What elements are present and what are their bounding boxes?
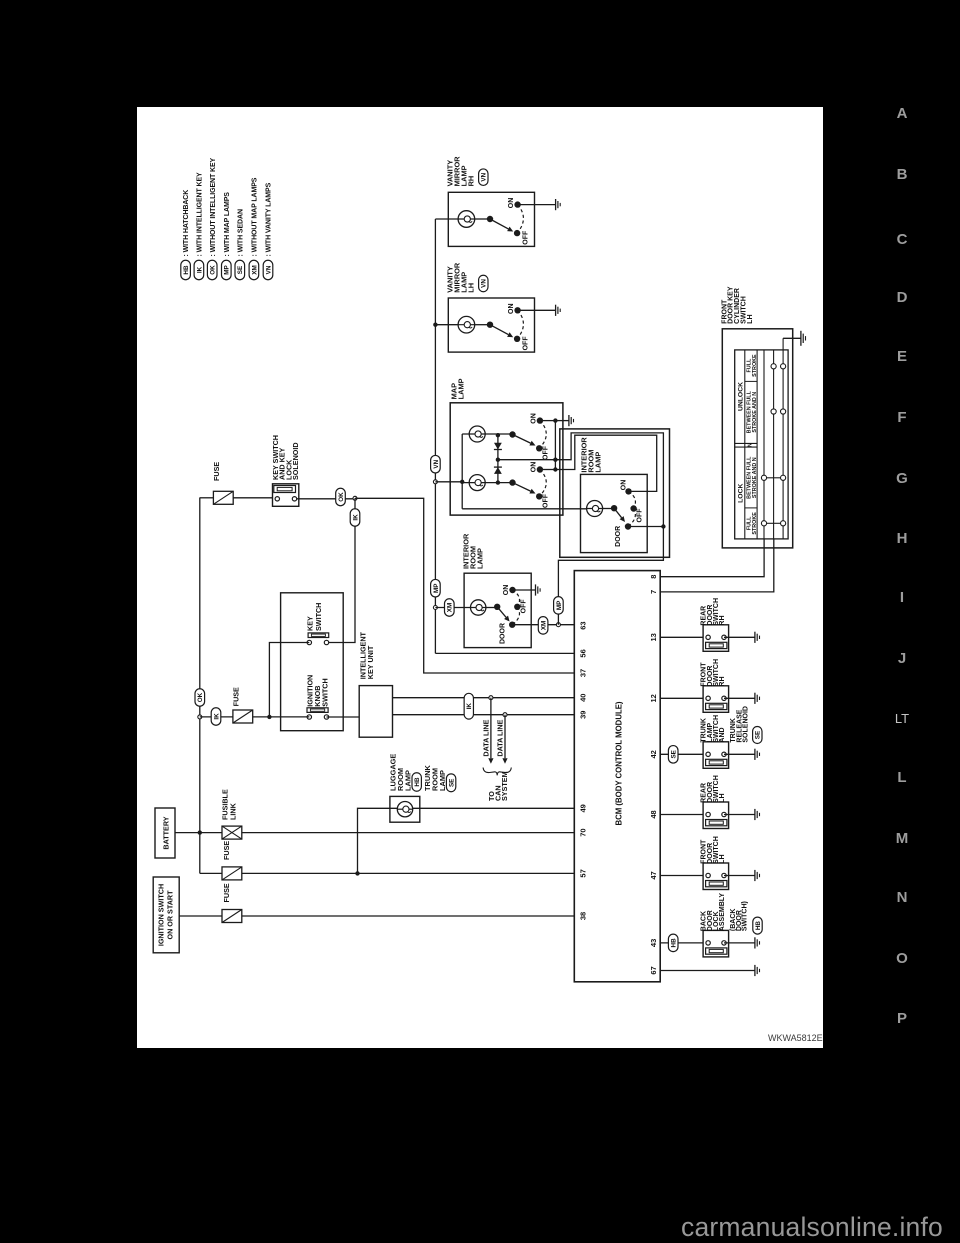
- wire ON1 to rail: [540, 420, 556, 422]
- contact OFF sedan: [630, 505, 636, 511]
- vanity RH bulb: [458, 211, 475, 228]
- legend pill OK: [207, 260, 217, 280]
- pill XM interior lamp: [445, 599, 455, 617]
- contact DOOR sedan: [625, 523, 631, 529]
- wire switch 410.7 to ground: [724, 636, 755, 638]
- map lamp bulb 1: [469, 426, 485, 442]
- ground switch 349.7: [754, 693, 756, 704]
- wire BCM to switch REAR RH: [660, 636, 703, 638]
- switch arrow sedan: [614, 508, 621, 517]
- solenoid terminal 1: [275, 497, 279, 501]
- switch box 172.5: [703, 863, 729, 890]
- pill IK knob branch: [211, 708, 221, 726]
- wire DOOR to BCM pin 63: [512, 624, 574, 626]
- wire trunk to BCM pin 56: [435, 652, 574, 654]
- wire vanity trunk: [434, 219, 436, 653]
- pill VN trunk: [431, 455, 441, 473]
- node pin63 W2: [556, 623, 560, 627]
- fuse F4 knob branch: [233, 710, 253, 723]
- wire map bulb2 chain: [462, 482, 512, 484]
- wire sedan ON loop to rail: [555, 435, 656, 491]
- key cyl rail 3: [782, 338, 784, 539]
- wire trunk node to interior lamp bulb: [435, 607, 470, 609]
- wire diode mid to rail: [498, 459, 556, 461]
- dashed arc (XM): [513, 590, 520, 607]
- node OK/IK branch: [353, 496, 357, 500]
- wire bus to fusible link: [200, 832, 222, 834]
- node data line 1: [489, 696, 493, 700]
- legend pill IK: [194, 260, 204, 280]
- vanity mirror lamp LH box: [448, 298, 534, 352]
- key cyl contacts u636: [771, 409, 776, 414]
- wire fuse F3 to key solenoid: [233, 497, 274, 499]
- wire W2 sedan door run: [555, 433, 663, 625]
- key cyl contacts u682: [771, 364, 776, 369]
- wire switch 105.1 to ground: [724, 942, 755, 944]
- wire ON to ground (XM): [513, 589, 536, 591]
- battery source box: [155, 808, 175, 858]
- legend pill VN: [263, 260, 273, 280]
- ground rail map: [554, 421, 556, 470]
- switch pivot map1: [509, 431, 515, 437]
- map lamp bulb 2: [469, 475, 485, 491]
- BCM box: [574, 571, 660, 982]
- wire BCM to switch BACK ASSEMBLY: [660, 942, 703, 944]
- key switch and ignition knob switch box: [281, 593, 344, 731]
- switch box 105.1: [703, 930, 729, 957]
- contact OFF map1: [536, 445, 542, 451]
- junction diode mid: [496, 458, 500, 462]
- wire node to BCM pin 37: [355, 498, 574, 673]
- wire vanity LH bulb to pivot: [475, 324, 490, 326]
- wire key cyl to ground: [783, 337, 801, 339]
- interior lamp bulb (XM): [471, 600, 486, 615]
- dashed arc vanity RH: [517, 205, 523, 234]
- solenoid slot bar: [274, 486, 296, 493]
- intelligent key unit box: [359, 686, 392, 738]
- key cyl contacts u525: [761, 521, 766, 526]
- wire vanity LH ON to ground: [518, 309, 556, 311]
- switch arrow map2: [513, 483, 531, 492]
- ground pin67: [754, 965, 756, 976]
- wire switch 172.5 to ground: [724, 875, 755, 877]
- ground switch 233.5: [754, 809, 756, 820]
- switch arrow vanity RH: [490, 219, 508, 229]
- wire BCM pin8 to key cyl: [660, 539, 764, 577]
- ground switch 410.7: [754, 632, 756, 643]
- switch box 349.7: [703, 686, 729, 713]
- data line arrow 1: [490, 698, 492, 759]
- junction rail ground T: [553, 418, 557, 422]
- key switch terminal b: [324, 640, 328, 644]
- key cyl sublabel divider: [756, 350, 758, 539]
- key switch and key lock solenoid box: [273, 484, 299, 507]
- interior room lamp outer box (SE): [560, 429, 670, 557]
- node trunk VN: [433, 480, 437, 484]
- contact OFF (XM): [514, 604, 520, 610]
- wire switch 349.7 to ground: [724, 697, 755, 699]
- wire fuse F1 to BCM pin 38: [242, 915, 575, 917]
- switch box 410.7: [703, 625, 729, 652]
- wire vanity RH bulb to pivot: [475, 218, 490, 220]
- pill OK on bus: [195, 689, 205, 707]
- wire fuse F2 to BCM pin 57: [242, 872, 575, 874]
- switch box 293.7: [703, 742, 729, 769]
- pill MP trunk: [431, 579, 441, 597]
- fuse F1 ignition: [222, 910, 242, 923]
- diode D1: [494, 443, 502, 450]
- key switch terminal a: [307, 640, 311, 644]
- contact DOOR (XM): [509, 622, 515, 628]
- wire bus to fuse F2: [200, 872, 222, 874]
- pill SE trunk room: [446, 774, 455, 792]
- interior room lamp box (XM): [464, 573, 531, 647]
- switch pivot sedan: [611, 505, 617, 511]
- ground key cylinder: [801, 331, 806, 346]
- switch arrow map1: [513, 435, 531, 444]
- wire bulb to pivot (XM): [486, 607, 497, 609]
- ground map lamp: [568, 415, 570, 426]
- vanity mirror lamp RH box: [448, 192, 534, 246]
- switch pivot vanity RH: [487, 216, 493, 222]
- wire sedan bulb to pivot: [603, 508, 615, 510]
- wire battery to bus: [175, 832, 200, 834]
- wire knob switch to IKU: [327, 716, 360, 718]
- key cyl cell divider unlock: [745, 380, 757, 382]
- solenoid terminal 2: [292, 497, 296, 501]
- wire BCM pin67 to ground: [660, 970, 755, 972]
- wire ON2 to rail: [540, 469, 556, 471]
- brace CAN: [483, 768, 511, 776]
- watermark carmanualsonline.info: [681, 1212, 943, 1243]
- node bus knob branch: [198, 715, 202, 719]
- ground switch 105.1: [754, 937, 756, 948]
- legend pill XM: [249, 260, 259, 280]
- legend pill MP: [222, 260, 232, 280]
- switch pivot map2: [509, 479, 515, 485]
- ground vanity LH: [555, 305, 557, 316]
- wire sedan DOOR branch: [628, 526, 663, 528]
- ignition knob slot bar: [307, 708, 328, 713]
- diode D2: [494, 467, 502, 474]
- wire node to key switch: [327, 498, 356, 642]
- switch pivot vanity LH: [487, 322, 493, 328]
- junction sedan DOOR branch: [661, 524, 665, 528]
- junction key/knob feed: [267, 715, 271, 719]
- wire switch 293.7 to ground: [724, 753, 755, 755]
- contact ON vanity RH: [514, 201, 520, 207]
- vanity LH bulb: [458, 316, 475, 333]
- interior room lamp box (SE): [581, 474, 648, 552]
- luggage room lamp bulb: [397, 802, 412, 817]
- key cyl rail 1: [763, 350, 765, 539]
- node data line 2: [503, 713, 507, 717]
- pill HB back door label: [753, 917, 762, 934]
- pill SE trunk label: [753, 727, 762, 744]
- wire through luggage lamp: [390, 807, 574, 809]
- legend pill SE: [235, 260, 245, 280]
- switch arrow vanity LH: [490, 325, 508, 335]
- ground switch 172.5: [754, 870, 756, 881]
- key cylinder inner box: [735, 350, 788, 539]
- scanned white page: [137, 107, 823, 1048]
- wire trunk to vanity LH bulb: [435, 324, 458, 326]
- dashed arc map1: [539, 421, 546, 449]
- wire BCM pin7 to key cyl: [660, 539, 774, 592]
- junction diode bulb1 wire: [496, 433, 500, 437]
- junction map feed: [460, 480, 464, 484]
- contact ON map2: [537, 466, 543, 472]
- wire vanity RH ON to ground: [518, 204, 556, 206]
- contact OFF map2: [536, 493, 542, 499]
- wire BCM to switch FRONT RH: [660, 697, 703, 699]
- dashed arc vanity LH: [517, 310, 523, 339]
- wire diode row: [497, 435, 499, 482]
- wire bus corner to fuse F3: [200, 497, 214, 499]
- wire trunk to vanity RH bulb: [435, 218, 458, 220]
- junction luggage branch: [355, 871, 359, 875]
- pill IK data lines: [464, 693, 473, 719]
- ground switch 293.7: [754, 749, 756, 760]
- wire IKU to BCM pin 39: [393, 714, 575, 716]
- wire fusible link to BCM pin 70: [242, 832, 575, 834]
- wire key switch to junction: [269, 643, 309, 717]
- wire map to sedan bulb: [462, 508, 587, 510]
- contact OFF vanity RH: [514, 230, 520, 236]
- pill OK key chain: [336, 488, 346, 506]
- junction battery bus: [198, 830, 202, 834]
- pill XM pin63: [538, 617, 548, 635]
- pill VN vanity RH: [479, 169, 488, 186]
- pill MP W2: [554, 597, 564, 615]
- pill HB luggage: [412, 773, 421, 792]
- switch box 233.5: [703, 802, 729, 829]
- legend pill HB: [181, 260, 191, 280]
- wire switch 233.5 to ground: [724, 814, 755, 816]
- contact ON map1: [537, 417, 543, 423]
- wire rail to ground: [555, 420, 569, 422]
- contact ON (XM): [509, 587, 515, 593]
- key switch slot bar: [308, 633, 329, 638]
- node trunk MP: [433, 606, 437, 610]
- fuse F3 key: [213, 491, 233, 504]
- key cyl rail 2: [773, 350, 775, 539]
- ignition switch source box: [153, 877, 179, 953]
- wire map feed horizontal: [461, 434, 463, 509]
- key cyl contacts u570: [761, 475, 766, 480]
- contact ON vanity LH: [514, 307, 520, 313]
- figure code: [768, 1033, 823, 1043]
- pill IK key switch branch: [350, 509, 360, 527]
- ground vanity RH: [555, 199, 557, 210]
- pill HB back door wire: [668, 934, 678, 952]
- wire IKU to BCM pin 40: [393, 697, 575, 699]
- wire main feed bus: [199, 498, 201, 874]
- ground interior lamp (XM): [535, 584, 537, 595]
- junction vanity LH: [433, 323, 437, 327]
- wire node to knob fuse chain: [200, 716, 309, 718]
- key cyl section divider: [735, 446, 757, 448]
- wire BCM to switch TRUNK AND: [660, 753, 703, 755]
- pill VN vanity LH: [479, 275, 488, 292]
- junction diode bulb2 wire: [496, 480, 500, 484]
- wire ignition to fuse: [179, 915, 222, 917]
- wire BCM to switch FRONT LH: [660, 875, 703, 877]
- wire junction to luggage lamp: [358, 808, 390, 873]
- fusible link FL: [222, 826, 242, 839]
- wire solenoid to OK node: [297, 498, 355, 500]
- junction rail dot1: [553, 458, 557, 462]
- key cyl cell divider lock: [745, 507, 757, 509]
- key cylinder outer box: [722, 329, 792, 548]
- dashed arc sedan: [629, 491, 636, 508]
- dashed arc map2: [539, 470, 546, 497]
- contact OFF vanity LH: [514, 336, 520, 342]
- wire map bulb1 chain: [462, 433, 512, 435]
- sedan lamp bulb: [587, 501, 603, 517]
- pill SE trunk wire: [668, 746, 678, 764]
- ignition knob terminal b: [324, 715, 328, 719]
- ignition knob terminal a: [307, 715, 311, 719]
- luggage room lamp box: [390, 796, 420, 822]
- wire trunk node to map feed: [435, 481, 462, 483]
- junction rail dot2: [553, 467, 557, 471]
- key cyl header divider: [744, 350, 746, 539]
- rotated wiring diagram group: [153, 156, 805, 982]
- contact ON sedan: [625, 488, 631, 494]
- wire BCM to switch REAR LH: [660, 814, 703, 816]
- switch arrow to DOOR (XM): [497, 607, 506, 617]
- switch pivot (XM): [494, 604, 500, 610]
- data line arrow 2: [504, 715, 506, 759]
- map lamp box: [450, 403, 563, 515]
- fuse F2 battery: [222, 867, 242, 880]
